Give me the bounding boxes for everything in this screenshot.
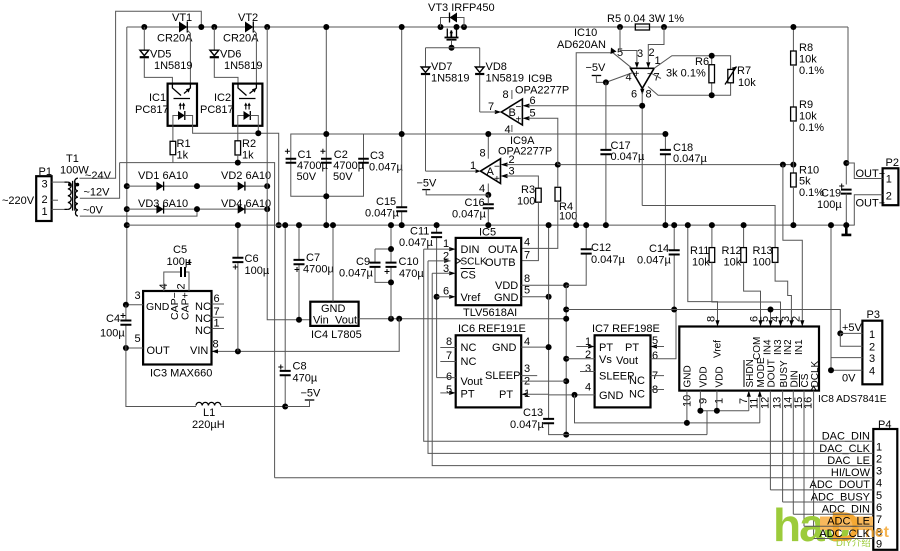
svg-text:2: 2 (42, 194, 48, 206)
wire VD2/VD4 column down to IC4 Vin (267, 27, 310, 320)
wire IC8 SHDN pin7 (748, 391, 750, 411)
svg-text:OUT: OUT (147, 345, 171, 357)
svg-text:IC1: IC1 (149, 92, 166, 104)
wire P1 pin1 to T1 (52, 208, 65, 210)
svg-text:SCLK: SCLK (461, 257, 487, 268)
thyristor VT2 CR20A (211, 12, 270, 84)
transformer T1 (60, 153, 89, 216)
svg-text:R5 0.04 3W 1%: R5 0.04 3W 1% (607, 13, 684, 25)
svg-text:C7: C7 (306, 252, 320, 264)
svg-text:PT: PT (599, 342, 613, 354)
top pin arrows (715, 320, 719, 326)
svg-text:10k: 10k (724, 257, 742, 269)
resistor R10 5k 0.1% (790, 165, 824, 229)
svg-text:7: 7 (446, 350, 452, 362)
svg-text:VD6: VD6 (220, 49, 241, 61)
svg-text:IN2: IN2 (783, 339, 794, 355)
svg-text:0.047µ: 0.047µ (673, 153, 708, 165)
svg-text:PT: PT (461, 389, 475, 401)
svg-text:6: 6 (876, 502, 882, 514)
optocoupler IC1 PC817 (135, 84, 282, 229)
svg-text:6: 6 (443, 286, 449, 298)
svg-text:R11: R11 (690, 245, 709, 257)
svg-text:MODE: MODE (756, 357, 767, 387)
svg-text:OUT−: OUT− (856, 198, 886, 210)
svg-text:0.047µ: 0.047µ (339, 268, 374, 280)
svg-text:8: 8 (446, 336, 452, 348)
signal ADC_DIN (793, 504, 873, 516)
svg-text:Vref: Vref (713, 340, 724, 358)
diode VD5 1N5819 (140, 27, 193, 84)
svg-text:10: 10 (682, 395, 694, 407)
svg-text:6: 6 (214, 293, 220, 305)
pin1 DIN (449, 247, 456, 251)
watermark haoDIY.net (773, 499, 890, 551)
svg-text:VT2: VT2 (238, 12, 258, 24)
signal ADC_CLK (814, 528, 874, 540)
svg-text:CR20A: CR20A (157, 33, 193, 45)
MOSFET VT3 IRFP450 (426, 2, 495, 51)
capacitor C3 0.047u (358, 150, 403, 174)
svg-text:0.047µ: 0.047µ (365, 208, 400, 220)
svg-text:100: 100 (559, 211, 577, 223)
capacitor C14 0.047u (637, 222, 680, 312)
svg-text:Vout: Vout (335, 315, 357, 327)
svg-text:100µ: 100µ (100, 328, 125, 340)
wire IC8 CS pin15 (803, 391, 805, 527)
svg-text:100: 100 (753, 257, 771, 269)
svg-text:1k: 1k (177, 150, 189, 162)
svg-text:C14: C14 (649, 243, 669, 255)
svg-text:4: 4 (524, 336, 530, 348)
svg-text:8: 8 (213, 339, 219, 351)
svg-text:IN4: IN4 (762, 339, 773, 355)
wire feedback to IN1 (783, 165, 802, 321)
svg-text:PT: PT (499, 389, 513, 401)
svg-text:6: 6 (652, 350, 658, 362)
svg-text:C3: C3 (370, 150, 384, 162)
wire +5V riser x=566.2 (565, 285, 567, 434)
svg-text:SLEEP: SLEEP (485, 370, 520, 382)
svg-text:+: + (494, 174, 500, 185)
wire IC8 DIN pin14 (792, 391, 794, 515)
svg-text:P3: P3 (867, 309, 880, 321)
svg-text:R8: R8 (799, 42, 813, 54)
pin2 wire from R5 right (648, 27, 664, 62)
svg-text:1: 1 (869, 329, 875, 341)
pin5 GND (521, 296, 548, 298)
svg-text:1: 1 (886, 174, 892, 186)
svg-text:DIN: DIN (461, 244, 480, 256)
resistor R2 1k (235, 138, 256, 163)
svg-text:4: 4 (479, 183, 485, 195)
svg-text:Vout: Vout (461, 376, 483, 388)
svg-text:P2: P2 (886, 157, 899, 169)
svg-text:C6: C6 (245, 253, 259, 265)
svg-text:−5V: −5V (417, 178, 438, 190)
svg-text:NC: NC (629, 375, 645, 387)
svg-text:2: 2 (886, 191, 892, 203)
svg-text:−: − (516, 102, 522, 113)
wire IC8 GND pin10 (686, 391, 688, 423)
pin8 wire to gain network bottom (648, 87, 664, 96)
svg-text:IC4 L7805: IC4 L7805 (311, 329, 362, 341)
svg-text:C8: C8 (293, 361, 307, 373)
op-amp IC9B OPA2277P (480, 73, 643, 165)
pin6 Vref (449, 295, 456, 299)
svg-text:R13: R13 (753, 245, 773, 257)
svg-text:~0V: ~0V (83, 205, 104, 217)
svg-text:100µ: 100µ (817, 199, 842, 211)
svg-text:PC817: PC817 (200, 104, 234, 116)
svg-text:GND: GND (492, 342, 517, 354)
reference IC7 REF198E (549, 310, 676, 408)
svg-text:IC6 REF191E: IC6 REF191E (458, 323, 526, 335)
wire IC7 GND to IC8 (575, 395, 760, 423)
svg-text:C12: C12 (591, 242, 611, 254)
svg-text:4: 4 (585, 382, 591, 394)
signal HI/LOW (275, 467, 874, 479)
svg-text:2: 2 (869, 342, 875, 354)
svg-text:3: 3 (876, 466, 882, 478)
reference IC6 REF191E (437, 323, 567, 407)
wire IC8 MODE pin11 (759, 391, 761, 423)
signal ADC_DOUT (770, 479, 873, 491)
svg-text:9: 9 (698, 398, 710, 404)
svg-text:AD620AN: AD620AN (557, 39, 606, 51)
svg-text:3k 0.1%: 3k 0.1% (666, 68, 706, 80)
capacitor C18 0.047u (660, 131, 708, 228)
node ~12V tap (80, 163, 120, 199)
signal ADC_LE (804, 516, 873, 528)
svg-text:DOUT: DOUT (767, 359, 778, 387)
svg-text:VD5: VD5 (150, 49, 171, 61)
svg-text:VD2 6A10: VD2 6A10 (221, 170, 271, 182)
diode VD8 1N5819 (475, 48, 524, 112)
svg-text:+5V: +5V (842, 322, 863, 334)
svg-text:3: 3 (42, 179, 48, 191)
svg-text:Vs: Vs (599, 354, 612, 366)
wire R1/R2 bottoms to HI/LOW vertical (120, 163, 275, 478)
wire GND bus y=225.1 (127, 224, 855, 226)
DAC IC5 TLV5618AI (424, 227, 570, 320)
svg-text:C9: C9 (356, 256, 370, 268)
thyristor VT1 CR20A (141, 12, 204, 84)
svg-text:5k: 5k (799, 176, 811, 188)
pin8 VDD (521, 284, 566, 286)
svg-text:CR20A: CR20A (223, 33, 259, 45)
svg-text:+: + (516, 115, 522, 126)
power -5V symbol at L1 (285, 388, 321, 407)
capacitor C11 0.047u (399, 222, 442, 378)
capacitor C8 470u (278, 222, 318, 409)
charge-pump IC3 MAX660 (123, 283, 224, 379)
svg-text:0.1%: 0.1% (799, 122, 824, 134)
capacitor C16 0.047u (452, 195, 494, 228)
connector P4 (873, 419, 897, 551)
resistor R12 10k (722, 222, 761, 320)
svg-text:12: 12 (760, 397, 772, 409)
resistor R4 100 (521, 162, 577, 249)
svg-text:3: 3 (135, 290, 141, 302)
svg-text:CS: CS (461, 270, 476, 282)
svg-text:1: 1 (214, 318, 220, 330)
svg-text:R12: R12 (722, 245, 742, 257)
svg-text:OUTA: OUTA (488, 244, 518, 256)
svg-text:R2: R2 (242, 138, 256, 150)
svg-text:+: + (634, 69, 640, 80)
diode VD3 6A10 (127, 198, 197, 214)
svg-text:1: 1 (655, 55, 661, 67)
resistor R3 100 (517, 184, 541, 261)
wire left column x126.8 (126, 27, 128, 305)
svg-text:C10: C10 (399, 256, 419, 268)
svg-text:470µ: 470µ (293, 373, 318, 385)
resistor R8 10k 0.1% (790, 24, 824, 77)
svg-text:5: 5 (524, 285, 530, 297)
connector P1 (2, 166, 52, 221)
svg-text:3: 3 (585, 363, 591, 375)
svg-text:DIN: DIN (790, 370, 801, 387)
wire rail end down to OUT+ node (846, 27, 848, 185)
svg-text:NC: NC (195, 301, 211, 313)
svg-text:Vref: Vref (461, 292, 482, 304)
capacitor C1 4700u 50V (285, 149, 329, 183)
svg-text:C15: C15 (376, 196, 396, 208)
IN4 feed from +5V line (770, 310, 772, 321)
svg-text:Vout: Vout (616, 355, 638, 367)
connector P2 (883, 157, 899, 205)
instrumentation amp IC10 AD620AN (557, 27, 678, 228)
svg-text:4: 4 (524, 237, 530, 249)
svg-text:VDD: VDD (699, 366, 710, 387)
svg-text:R1: R1 (177, 138, 191, 150)
capacitor C13 0.047u (510, 395, 707, 435)
svg-text:VD8: VD8 (486, 61, 507, 73)
svg-text:0.047µ: 0.047µ (591, 254, 626, 266)
svg-text:VDD: VDD (495, 280, 518, 292)
capacitor C2 4700u 50V (320, 149, 364, 183)
svg-text:R3: R3 (521, 184, 535, 196)
wire bus to Vref pin8 (688, 225, 718, 320)
svg-text:NC: NC (195, 325, 211, 337)
capacitor C4 100u (100, 305, 131, 348)
svg-text:NC: NC (461, 342, 477, 354)
svg-text:IC8 ADS7841E: IC8 ADS7841E (818, 394, 887, 405)
pin4 wire to -5V (606, 73, 633, 83)
svg-text:1: 1 (876, 441, 882, 453)
svg-text:~24V: ~24V (85, 170, 112, 182)
svg-text:VIN: VIN (190, 345, 208, 357)
svg-text:2: 2 (176, 283, 188, 289)
svg-text:8: 8 (480, 148, 486, 160)
wire feedback line y=164.6 (558, 164, 794, 166)
svg-text:−5V: −5V (301, 388, 322, 400)
svg-text:1: 1 (42, 206, 48, 218)
svg-text:1: 1 (443, 238, 449, 250)
svg-text:1N5819: 1N5819 (486, 73, 525, 85)
svg-text:R9: R9 (799, 99, 813, 111)
svg-text:3: 3 (869, 353, 875, 365)
svg-text:4: 4 (505, 124, 511, 136)
wire +5V line y=309.5 to P3 (566, 310, 840, 334)
svg-text:R7: R7 (737, 65, 751, 77)
wire IC8 DCLK pin16 (813, 391, 815, 539)
regulator IC4 L7805 (310, 222, 361, 341)
svg-text:C11: C11 (410, 226, 429, 238)
svg-text:1: 1 (470, 160, 476, 172)
inductor L1 220uH (126, 348, 285, 431)
resistor R5 0.04 3W 1% (607, 13, 684, 30)
pin5 wire REF (576, 53, 631, 225)
svg-text:TLV5618AI: TLV5618AI (463, 307, 517, 319)
diode VD6 1N5819 (210, 27, 263, 84)
svg-text:VT3 IRFP450: VT3 IRFP450 (428, 2, 495, 14)
svg-text:4700µ: 4700µ (303, 264, 334, 276)
svg-text:GND: GND (599, 390, 624, 402)
wire IC8 VDD pins 9,1 (700, 391, 748, 435)
svg-text:P4: P4 (878, 419, 891, 431)
svg-text:IC10: IC10 (574, 27, 597, 39)
svg-text:7: 7 (488, 101, 494, 113)
wire V+ line y=134 (364, 133, 666, 135)
pin2 SCLK clock (444, 259, 451, 263)
svg-text:Vin: Vin (313, 315, 329, 327)
svg-text:3: 3 (637, 48, 643, 60)
capacitor C9 0.047u (339, 249, 391, 282)
diode VD4 6A10 (194, 198, 271, 214)
capacitor C5 100u (164, 244, 192, 291)
svg-text:~220V: ~220V (2, 195, 35, 207)
signal DAC_LE (432, 273, 873, 467)
wire GND chain x=548.6 (548, 225, 550, 395)
pin6 output (640, 89, 644, 95)
svg-text:OPA2277P: OPA2277P (515, 85, 569, 97)
svg-text:10k: 10k (738, 77, 756, 89)
svg-text:1N5819: 1N5819 (154, 60, 193, 72)
svg-text:C19: C19 (821, 188, 841, 200)
svg-text:NC: NC (461, 356, 477, 368)
connector P3 (862, 309, 882, 384)
power -5V symbol near IC9A (417, 178, 489, 195)
svg-text:OPA2277P: OPA2277P (498, 146, 552, 158)
svg-text:7: 7 (524, 250, 530, 262)
svg-text:GND: GND (683, 365, 694, 387)
svg-text:R6: R6 (695, 56, 709, 68)
svg-text:100µ: 100µ (245, 265, 270, 277)
svg-text:IC3 MAX660: IC3 MAX660 (150, 368, 212, 380)
resistor R11 10k (690, 222, 781, 320)
wire P1 pin2 stub (52, 199, 58, 201)
svg-text:0.047µ: 0.047µ (452, 209, 487, 221)
svg-text:BUSY: BUSY (779, 360, 790, 388)
diode VD2 6A10 (194, 170, 271, 191)
op-amp IC9A OPA2277P (426, 131, 558, 198)
svg-text:IC2: IC2 (214, 92, 231, 104)
wire top rail y27 (127, 26, 848, 28)
svg-text:1: 1 (714, 398, 726, 404)
wire P1 pin3 to T1 (52, 181, 65, 183)
wire riser to IC3 VIN (212, 319, 399, 352)
optocoupler IC2 PC817 (200, 84, 262, 141)
signal DAC_DIN (424, 249, 874, 442)
svg-text:IC5: IC5 (479, 227, 496, 239)
signal ADC_BUSY (783, 491, 874, 503)
svg-text:1N5819: 1N5819 (431, 73, 470, 85)
wire IC4 Vout +5V line (359, 318, 567, 320)
node ~0V tap (80, 205, 197, 217)
svg-text:NC: NC (195, 313, 211, 325)
svg-text:VD4 6A10: VD4 6A10 (221, 198, 271, 210)
svg-text:~12V: ~12V (84, 187, 111, 199)
svg-text:1k: 1k (242, 150, 254, 162)
svg-text:IC9B: IC9B (528, 73, 552, 85)
svg-text:6: 6 (446, 371, 452, 383)
capacitor C6 100u (232, 222, 269, 351)
svg-text:8: 8 (503, 89, 509, 101)
svg-text:50V: 50V (297, 171, 317, 183)
capacitor C10 470u (385, 222, 425, 319)
capacitor bank box C1/C2 (291, 27, 364, 225)
svg-text:100: 100 (517, 196, 535, 208)
ground symbol (842, 225, 852, 235)
svg-text:OUTB: OUTB (485, 257, 516, 269)
svg-text:PC817: PC817 (135, 104, 169, 116)
svg-text:8: 8 (524, 273, 530, 285)
svg-text:4: 4 (876, 478, 882, 490)
signal DAC_CLK (428, 261, 873, 455)
svg-text:5: 5 (135, 333, 141, 345)
svg-text:10k: 10k (799, 54, 817, 66)
svg-text:470µ: 470µ (399, 268, 424, 280)
wire IC8 BUSY pin13 (782, 391, 784, 502)
svg-text:DAC_DIN: DAC_DIN (822, 431, 870, 443)
svg-text:VT1: VT1 (172, 12, 192, 24)
svg-text:6: 6 (631, 89, 637, 101)
resistor R6 3k 0.1% (664, 53, 731, 99)
svg-text:PT: PT (625, 342, 639, 354)
svg-text:220µH: 220µH (192, 419, 225, 431)
capacitor C17 0.047u (600, 82, 645, 228)
svg-text:IN1: IN1 (794, 339, 805, 355)
svg-text:0.047µ: 0.047µ (611, 151, 646, 163)
svg-text:−: − (494, 162, 500, 173)
svg-text:4: 4 (869, 366, 875, 378)
svg-text:VD1 6A10: VD1 6A10 (138, 170, 188, 182)
wire IC10 output to right (642, 206, 775, 248)
svg-text:DCLK: DCLK (810, 360, 821, 387)
svg-text:10k: 10k (692, 257, 710, 269)
svg-text:−: − (647, 69, 653, 80)
svg-text:GND: GND (321, 303, 346, 315)
svg-text:0.047µ: 0.047µ (369, 162, 404, 174)
svg-text:C13: C13 (523, 407, 543, 419)
capacitor C7 4700u (294, 222, 335, 323)
svg-text:IC7 REF198E: IC7 REF198E (592, 323, 660, 335)
diode VD1 6A10 (127, 170, 197, 191)
svg-text:P1: P1 (39, 166, 52, 178)
svg-text:−5V: −5V (586, 62, 607, 74)
svg-text:C4: C4 (106, 313, 120, 325)
svg-text:VD7: VD7 (431, 61, 452, 73)
svg-text:8: 8 (646, 89, 652, 101)
power -5V symbol near IC10 (586, 62, 609, 85)
resistor R9 10k 0.1% (791, 65, 825, 165)
svg-text:0.1%: 0.1% (799, 65, 824, 77)
svg-text:C16: C16 (465, 197, 485, 209)
svg-text:2: 2 (876, 453, 882, 465)
svg-text:1N5819: 1N5819 (224, 60, 263, 72)
